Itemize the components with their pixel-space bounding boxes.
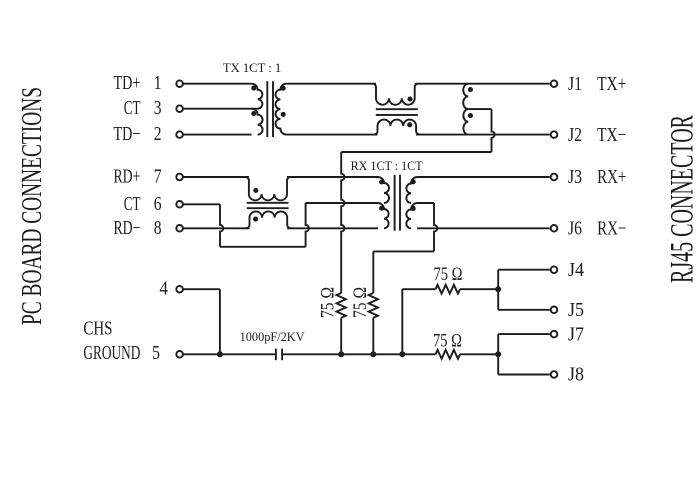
wire resistor feed riser xyxy=(401,289,403,354)
pin 6 (CT) xyxy=(124,194,183,215)
choke L2 bottom dot xyxy=(253,217,258,222)
wire CT up to T2 center tap xyxy=(306,203,378,247)
wire choke to J1 xyxy=(415,83,550,85)
choke L1 bottom winding xyxy=(374,120,420,135)
resistor R3 75ohm horizontal xyxy=(436,285,461,294)
label: RX 1CT : 1CT xyxy=(351,159,423,173)
resistor R4 75ohm horizontal xyxy=(436,350,461,359)
svg-text:75 Ω: 75 Ω xyxy=(434,265,463,285)
wire TD- pin2 to T1 xyxy=(183,134,251,136)
choke L2 top dot xyxy=(253,188,258,193)
svg-text:1000pF/2KV: 1000pF/2KV xyxy=(240,329,306,344)
label: 75 Ohm (R1, vertical) xyxy=(319,287,339,318)
svg-text:RX−: RX− xyxy=(597,219,626,240)
svg-text:7: 7 xyxy=(154,167,162,188)
wire autotransformer center tap xyxy=(468,109,495,152)
svg-text:J1: J1 xyxy=(568,74,582,95)
svg-text:J5: J5 xyxy=(568,300,584,321)
pin J6 (RX-) xyxy=(551,219,627,240)
junction R1/ground xyxy=(338,351,344,357)
autotransformer winding lower xyxy=(463,109,468,135)
wire ground bus xyxy=(282,353,435,355)
choke L2 core xyxy=(247,203,289,208)
wire pin4 to ground bus xyxy=(183,289,220,354)
label: 75 Ohm (R2, vertical) xyxy=(351,287,371,318)
choke L1 top dot xyxy=(407,96,412,101)
pin J5 xyxy=(551,300,584,321)
transformer T1 primary dot upper xyxy=(251,86,256,91)
label: 1000pF/2KV xyxy=(240,329,306,344)
wire T1 secondary top to choke xyxy=(286,83,376,85)
autotransformer winding upper xyxy=(463,84,468,109)
transformer T1 primary winding lower xyxy=(252,109,263,135)
svg-text:1: 1 xyxy=(154,73,162,94)
junction J4/J5 node xyxy=(495,286,501,292)
wire choke L2 bottom to T2 xyxy=(287,227,378,229)
svg-text:GROUND: GROUND xyxy=(83,343,140,364)
svg-text:5: 5 xyxy=(152,343,160,364)
autotransformer dot upper xyxy=(468,87,473,92)
wire T2 to J3 xyxy=(417,176,550,178)
pin J1 (TX+) xyxy=(551,74,627,95)
svg-text:J3: J3 xyxy=(568,167,582,188)
svg-text:J4: J4 xyxy=(568,260,584,281)
svg-text:4: 4 xyxy=(160,279,169,300)
wire J7/J8 splitter xyxy=(498,334,550,374)
wire R4 to J7/J8 node xyxy=(460,353,498,355)
svg-text:CT: CT xyxy=(124,194,141,215)
pin J2 (TX-) xyxy=(551,125,627,146)
pin J3 (RX+) xyxy=(551,167,627,188)
svg-text:75 Ω: 75 Ω xyxy=(319,287,339,318)
label: 75 Ohm (R3) xyxy=(434,265,463,285)
autotransformer dot lower xyxy=(468,113,473,118)
transformer T2 secondary dot upper xyxy=(411,179,416,184)
wire T1 secondary bottom to choke xyxy=(286,134,377,136)
svg-text:2: 2 xyxy=(154,124,162,145)
label: RJ45 CONNECTOR (vertical) xyxy=(665,115,700,283)
junction J7/J8 node xyxy=(495,351,501,357)
junction feed/ground xyxy=(399,351,405,357)
svg-text:RJ45 CONNECTOR: RJ45 CONNECTOR xyxy=(665,115,700,283)
transformer T1 secondary winding xyxy=(276,84,287,135)
pin 5 (CHS GROUND) xyxy=(83,319,183,364)
pin 7 (RD+) xyxy=(114,167,183,188)
svg-text:CT: CT xyxy=(124,98,141,119)
svg-text:J2: J2 xyxy=(568,125,582,146)
capacitor C1 1000pF/2KV xyxy=(276,349,282,361)
transformer T2 primary winding upper xyxy=(378,177,389,203)
transformer T2 primary dot lower xyxy=(379,206,384,211)
wire pin5 to capacitor xyxy=(183,353,276,355)
transformer T1 secondary dot upper xyxy=(281,86,286,91)
resistor R1 75ohm vertical xyxy=(337,293,346,318)
pin J7 xyxy=(551,324,585,345)
transformer T1 primary winding upper xyxy=(252,84,263,109)
transformer T2 secondary winding upper xyxy=(406,177,417,203)
resistor R2 75ohm vertical xyxy=(369,293,378,318)
pin 4 xyxy=(160,279,183,300)
svg-text:TX+: TX+ xyxy=(597,74,626,95)
choke L1 core xyxy=(376,109,418,115)
wire CT pin6 routing xyxy=(183,204,305,247)
wire feed to R3 xyxy=(402,288,435,290)
svg-text:J7: J7 xyxy=(568,324,584,345)
pin 2 (TD-) xyxy=(114,124,183,145)
wire choke to J2 xyxy=(416,134,550,136)
svg-text:3: 3 xyxy=(154,98,162,119)
transformer T2 core xyxy=(395,175,400,231)
svg-text:CHS: CHS xyxy=(83,319,112,340)
svg-text:TD−: TD− xyxy=(114,124,141,145)
transformer T1 primary dot lower xyxy=(251,111,256,116)
wire T2 secondary center tap xyxy=(373,203,437,293)
transformer T2 primary dot upper xyxy=(379,179,384,184)
svg-text:J6: J6 xyxy=(568,219,582,240)
transformer T1 secondary dot lower xyxy=(281,112,286,117)
svg-text:8: 8 xyxy=(154,218,162,239)
pin 1 (TD+) xyxy=(114,73,183,94)
wire CT pin3 to T1 xyxy=(183,108,257,110)
choke L1 top winding xyxy=(373,84,419,105)
svg-text:6: 6 xyxy=(154,194,162,215)
wire choke L2 top to T2 xyxy=(287,176,378,178)
pin J8 xyxy=(551,365,584,386)
wire R1 to ground bus xyxy=(340,318,342,355)
transformer T2 primary winding lower xyxy=(378,203,389,228)
pin 8 (RD-) xyxy=(114,218,183,239)
svg-text:RD+: RD+ xyxy=(114,167,141,188)
wire R3 to J4/J5 node xyxy=(460,288,498,290)
transformer T2 secondary winding lower xyxy=(406,203,417,228)
svg-text:PC BOARD CONNECTIONS: PC BOARD CONNECTIONS xyxy=(17,87,48,325)
wire J4/J5 splitter xyxy=(498,270,550,310)
wire center tap drop to node xyxy=(341,152,491,293)
label: PC BOARD CONNECTIONS (vertical) xyxy=(17,87,48,325)
wire T2 to J6 xyxy=(417,227,550,229)
choke L2 top winding xyxy=(245,177,290,200)
svg-text:TD+: TD+ xyxy=(114,73,141,94)
svg-text:RD−: RD− xyxy=(114,218,141,239)
svg-text:RX 1CT : 1CT: RX 1CT : 1CT xyxy=(351,159,423,173)
svg-text:RX+: RX+ xyxy=(597,167,626,188)
svg-text:TX−: TX− xyxy=(597,125,626,146)
wire RD- pin8 to choke xyxy=(183,227,249,229)
pin J4 xyxy=(551,260,585,281)
choke L1 bottom dot xyxy=(407,122,412,127)
transformer T2 secondary dot lower xyxy=(411,206,416,211)
wire RD+ pin7 to choke xyxy=(183,176,249,178)
label: TX 1CT : 1 xyxy=(223,61,281,75)
junction R2/ground xyxy=(370,351,376,357)
choke L2 bottom winding xyxy=(246,211,291,228)
label: 75 Ohm (R4) xyxy=(433,331,462,351)
svg-text:TX 1CT : 1: TX 1CT : 1 xyxy=(223,61,281,75)
transformer T1 core xyxy=(267,81,273,137)
svg-text:J8: J8 xyxy=(568,365,584,386)
wire R2 to ground bus xyxy=(372,318,374,355)
pin 3 (CT) xyxy=(124,98,183,119)
svg-text:75 Ω: 75 Ω xyxy=(351,287,371,318)
wire TD+ pin1 to T1 xyxy=(183,83,251,85)
junction pin4/ground xyxy=(217,351,223,357)
